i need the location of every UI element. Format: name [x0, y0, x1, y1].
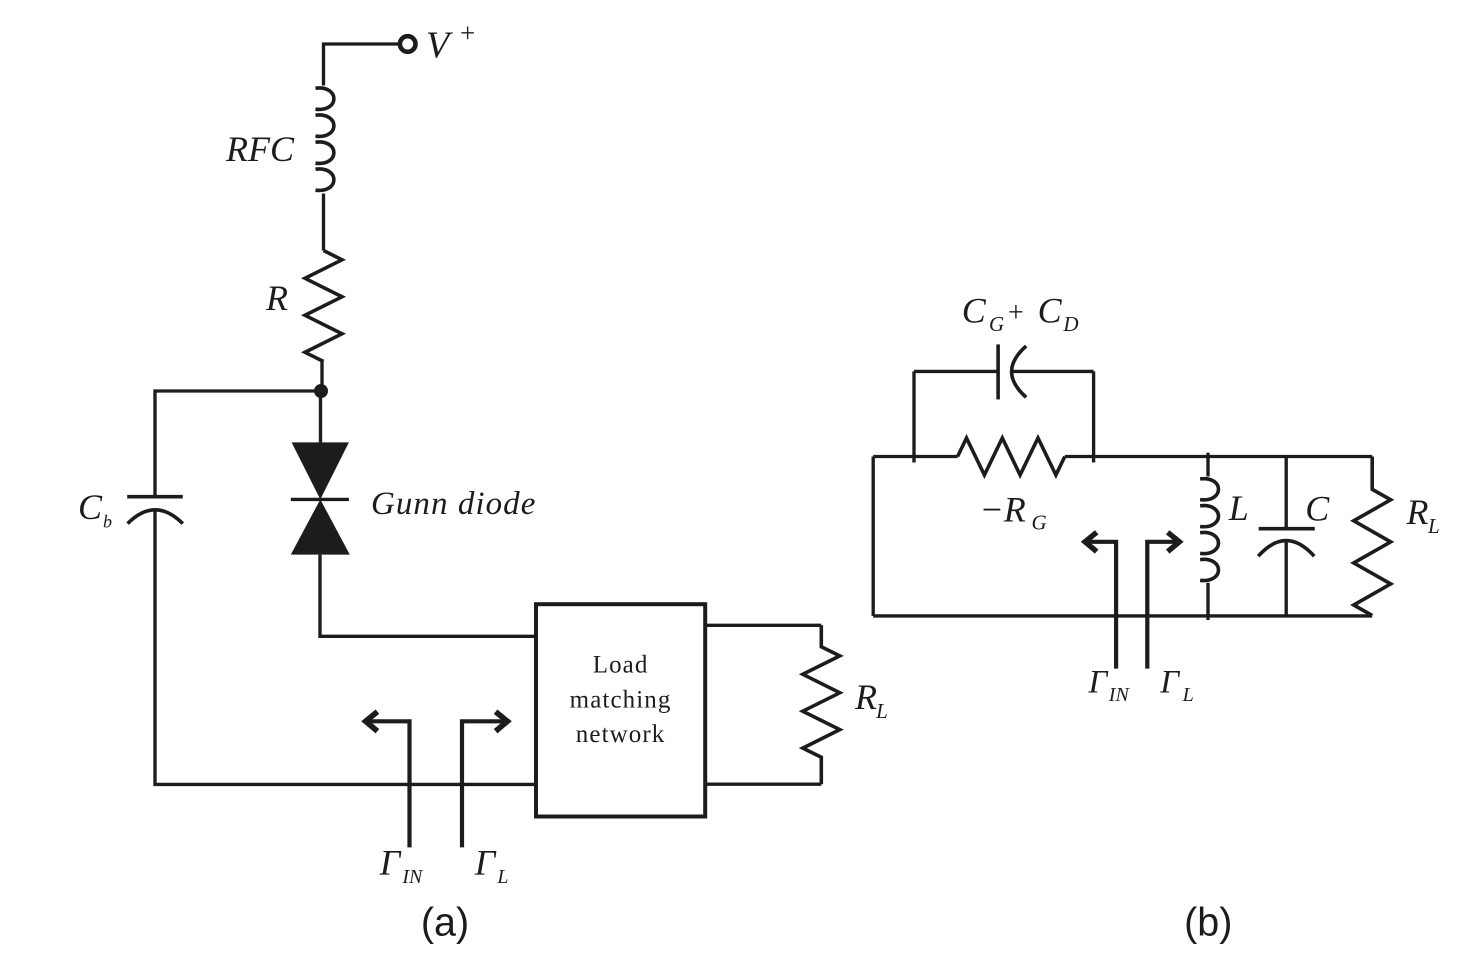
- svg-text:Γ: Γ: [379, 842, 402, 882]
- terminal V+: [400, 36, 416, 52]
- svg-text:C: C: [78, 487, 103, 527]
- wire cap branch left vertical: [912, 371, 915, 462]
- wire RFC to R: [322, 194, 325, 251]
- arrow Gamma IN (b): [1086, 542, 1116, 669]
- wire box to RL top: [705, 624, 821, 627]
- box load matching network: [536, 604, 705, 816]
- capacitor C: [1285, 457, 1288, 529]
- wire box to RL bottom: [705, 783, 821, 786]
- svg-text:(a): (a): [421, 901, 469, 945]
- wire bottom line (b): [873, 614, 1372, 617]
- wire top line right: [1065, 455, 1372, 458]
- wire cap right: [1012, 370, 1094, 373]
- svg-text:G: G: [989, 312, 1004, 336]
- svg-text:Γ: Γ: [1088, 665, 1109, 701]
- wire R to node: [320, 362, 323, 392]
- inductor L: [1206, 453, 1209, 477]
- svg-text:L: L: [1427, 514, 1440, 538]
- wire Cb to bottom: [155, 510, 536, 785]
- svg-text:R: R: [1406, 492, 1429, 532]
- svg-text:Γ: Γ: [474, 842, 497, 882]
- label CG+CD: [962, 291, 1079, 336]
- inductor RFC: [316, 88, 334, 190]
- svg-text:Load: Load: [593, 652, 649, 679]
- svg-text:L: L: [875, 699, 888, 723]
- svg-text:+: +: [1008, 298, 1024, 329]
- resistor -RG: [958, 438, 1065, 475]
- svg-text:Γ: Γ: [1159, 665, 1180, 701]
- svg-text:R: R: [265, 278, 288, 318]
- svg-text:b: b: [103, 511, 112, 531]
- wire top line left: [873, 455, 957, 458]
- wire node to Cb: [155, 391, 321, 497]
- Gunn diode D1: [291, 442, 350, 554]
- wire Gunn diode to box: [320, 555, 536, 637]
- svg-text:V: V: [426, 24, 453, 66]
- svg-text:+: +: [460, 18, 475, 48]
- svg-text:D: D: [1062, 312, 1078, 336]
- resistor RL (b): [1354, 457, 1391, 616]
- svg-text:L: L: [1182, 684, 1194, 706]
- label Load matching network: [570, 652, 672, 749]
- svg-text:−R: −R: [980, 490, 1026, 530]
- svg-text:C: C: [962, 291, 987, 331]
- svg-text:RFC: RFC: [225, 129, 295, 169]
- wire cap left: [914, 370, 998, 373]
- wire node to Gunn diode: [319, 391, 322, 442]
- capacitor Cb: [127, 497, 183, 524]
- arrow Gamma IN (a): [367, 721, 410, 847]
- svg-text:IN: IN: [1108, 684, 1131, 706]
- svg-text:C: C: [1305, 488, 1330, 528]
- svg-text:network: network: [576, 721, 666, 748]
- wire left vertical (b): [872, 457, 875, 616]
- svg-text:(b): (b): [1184, 901, 1232, 945]
- svg-text:C: C: [1038, 291, 1063, 331]
- node junction dot: [314, 384, 328, 398]
- wire cap branch right vertical: [1092, 371, 1095, 462]
- svg-text:IN: IN: [401, 866, 424, 888]
- arrow Gamma L (b): [1147, 542, 1178, 669]
- svg-text:L: L: [496, 866, 508, 888]
- resistor RL (a): [803, 625, 840, 784]
- resistor R: [305, 251, 342, 362]
- svg-text:matching: matching: [570, 686, 672, 713]
- arrow Gamma L (a): [462, 721, 506, 847]
- svg-text:R: R: [854, 677, 877, 717]
- svg-text:G: G: [1032, 511, 1047, 535]
- svg-text:L: L: [1228, 488, 1249, 528]
- svg-text:Gunn diode: Gunn diode: [371, 486, 536, 522]
- wire V+ to RFC: [324, 44, 399, 86]
- capacitor CG+CD: [998, 344, 1026, 399]
